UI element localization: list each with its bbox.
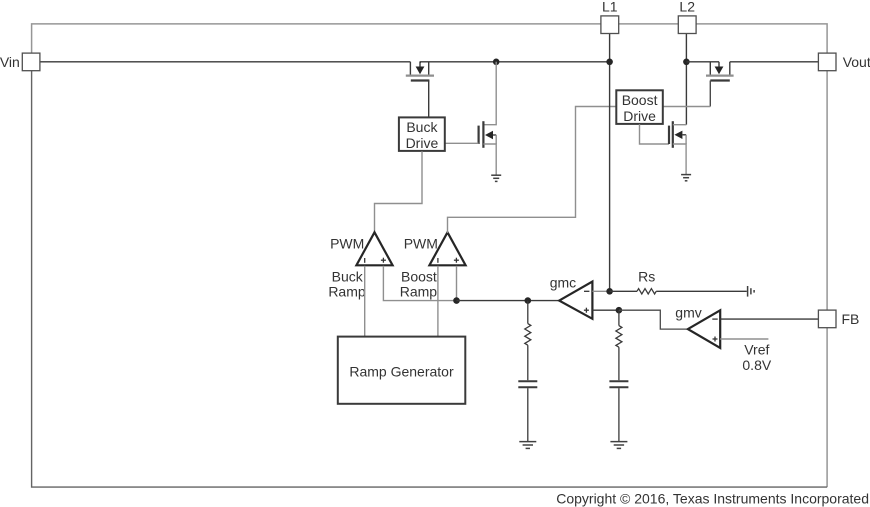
node junction dot boost plus <box>453 297 460 304</box>
block Ramp Generator <box>338 337 466 404</box>
svg-text:Ramp: Ramp <box>400 283 438 299</box>
svg-text:L1: L1 <box>602 0 618 15</box>
svg-text:Buck: Buck <box>406 119 438 135</box>
capacitor Cc2 <box>609 381 628 441</box>
svg-text:gmv: gmv <box>675 304 701 320</box>
wire Q3 gate to Boost Drive <box>709 81 711 107</box>
wire L1 pad stub <box>609 34 611 62</box>
node L2 junction dot <box>683 59 690 66</box>
comparator buck PWM <box>356 232 392 265</box>
resistor Rc2 <box>616 310 622 380</box>
svg-text:Ramp: Ramp <box>328 283 366 299</box>
wire buck PWM plus input <box>383 266 456 301</box>
wire boost PWM plus input <box>456 266 458 301</box>
wire gmc plus input <box>592 309 619 311</box>
ground below Cc <box>519 442 536 449</box>
resistor Rc compensation <box>525 301 531 381</box>
wire Vin rail <box>40 61 410 63</box>
wire gmv input path <box>619 310 688 329</box>
wire Vref stub <box>720 338 768 340</box>
svg-text:Drive: Drive <box>406 135 439 151</box>
wire buck ramp input <box>364 266 366 337</box>
svg-text:FB: FB <box>842 311 860 327</box>
svg-text:Boost: Boost <box>401 269 437 285</box>
wire SW1 rail <box>420 62 609 63</box>
node junction dot gmc minus <box>606 288 613 295</box>
node junction dot compensation <box>525 297 532 304</box>
block Buck Drive <box>399 117 445 151</box>
wire SW2 rail <box>686 61 719 63</box>
transistor Q1 buck high-side PMOS <box>406 62 434 81</box>
pin pad Vin <box>22 53 40 71</box>
resistor Rs <box>610 289 747 294</box>
svg-text:L2: L2 <box>679 0 695 15</box>
node junction dot gmc plus <box>616 307 623 314</box>
transistor Q3 boost rectifier PMOS <box>706 62 734 81</box>
svg-text:Drive: Drive <box>623 108 656 124</box>
svg-text:0.8V: 0.8V <box>742 357 771 373</box>
svg-text:Rs: Rs <box>638 268 655 284</box>
wire Q4 drain stub <box>673 124 687 126</box>
ground below Cc2 <box>610 442 627 449</box>
wire Q1 gate to Buck Drive <box>428 81 430 118</box>
node L1 junction dot <box>606 59 613 66</box>
wire Vout rail <box>730 61 819 63</box>
wire Buck Drive to Q2 gate <box>445 142 479 144</box>
wire gmc minus input <box>592 290 609 292</box>
wire gmv minus to FB <box>720 318 818 320</box>
wire Boost Drive to Q4 gate <box>640 124 670 144</box>
wire boost PWM output to Boost Drive <box>448 107 617 234</box>
svg-text:Boost: Boost <box>622 92 658 108</box>
IC boundary box left/bottom <box>32 71 828 487</box>
ground small rotated at Rs <box>748 286 755 297</box>
svg-text:Vin: Vin <box>0 54 20 70</box>
svg-text:Vref: Vref <box>744 342 769 358</box>
block Boost Drive <box>616 90 663 124</box>
svg-text:PWM: PWM <box>404 236 438 252</box>
wire Buck Drive to buck PWM output <box>375 151 423 233</box>
transistor Q4 boost low-side NMOS <box>669 121 686 148</box>
ground below Q2 <box>491 175 501 181</box>
svg-text:Ramp Generator: Ramp Generator <box>349 364 454 380</box>
wire error bus <box>457 300 560 302</box>
capacitor Cc compensation <box>518 381 537 441</box>
transistor Q2 buck low-side NMOS <box>479 121 497 148</box>
wire Q2 source to ground <box>483 144 496 175</box>
amplifier gmv <box>688 310 720 348</box>
svg-text:gmc: gmc <box>550 275 576 291</box>
wire L1 sense line <box>609 62 611 291</box>
amplifier gmc <box>559 282 592 319</box>
ground below Q4 <box>681 175 691 181</box>
wire Q2 drain to SW1 <box>483 62 496 125</box>
svg-text:Vout: Vout <box>843 54 870 70</box>
pin pad Vout <box>818 53 836 71</box>
node SW1 junction dot <box>493 59 500 66</box>
wire boost ramp input <box>437 266 439 337</box>
svg-text:Copyright © 2016, Texas Instru: Copyright © 2016, Texas Instruments Inco… <box>556 491 869 507</box>
pin pad L2 <box>678 16 696 34</box>
comparator boost PWM <box>429 232 465 265</box>
pin pad FB <box>818 310 836 328</box>
pin pad L1 <box>601 16 619 34</box>
svg-text:PWM: PWM <box>330 236 364 252</box>
wire L2 pad stub <box>685 34 687 125</box>
wire Q4 source to ground <box>673 144 686 174</box>
svg-text:Buck: Buck <box>332 269 364 285</box>
